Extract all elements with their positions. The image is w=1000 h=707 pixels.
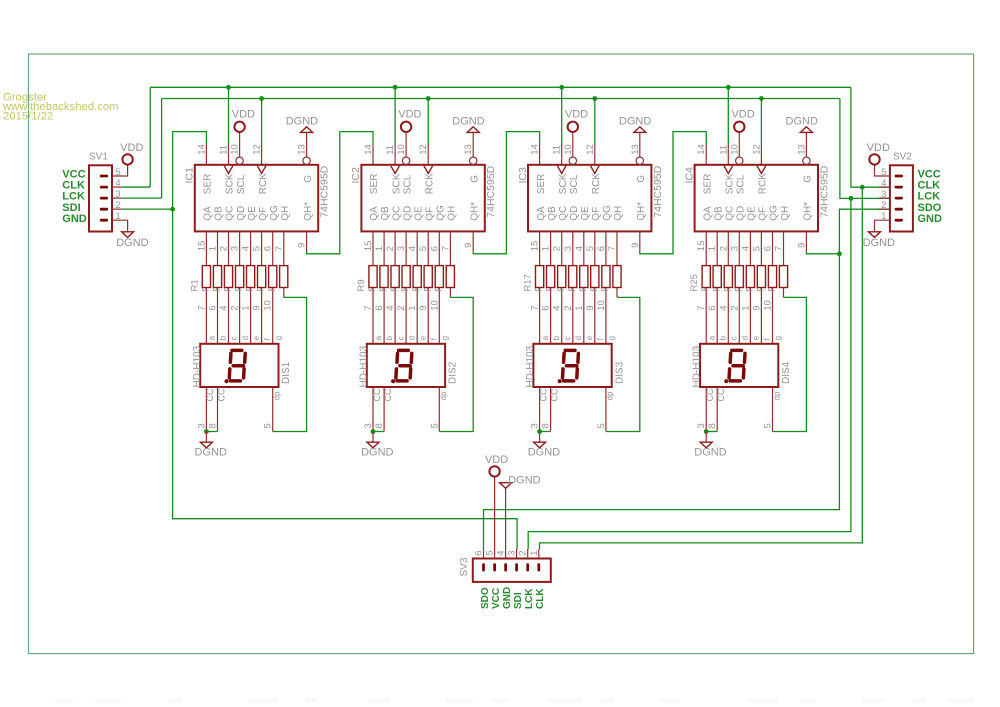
svg-text:QE: QE (413, 206, 424, 221)
pin stub SER IC3 (539, 145, 541, 165)
pin bar 5 SV3 (493, 563, 496, 571)
pin stub QH* IC2 (472, 231, 474, 251)
power VDD symbol IC1 (234, 122, 244, 132)
svg-text:GND: GND (502, 587, 513, 609)
wire segment column 3 stage 1 (239, 231, 241, 343)
svg-text:SCK: SCK (225, 173, 236, 194)
svg-text:dp: dp (772, 391, 781, 400)
wire segment column 5 stage 1 (261, 231, 263, 343)
ground DGND symbol DIS3 (534, 442, 546, 448)
svg-text:b: b (719, 335, 728, 340)
body DIS2 (367, 344, 445, 387)
svg-text:g: g (274, 336, 283, 340)
pin bar 3 SV2 (895, 197, 903, 200)
pin stub RCK IC1 (261, 145, 263, 165)
body IC1 (195, 165, 318, 232)
pin VDD to SCL IC3 (572, 132, 574, 157)
pin stub 1 SV3 (538, 549, 540, 559)
svg-text:LCK: LCK (524, 588, 535, 609)
svg-text:3: 3 (729, 246, 740, 251)
svg-text:R25: R25 (689, 274, 700, 291)
svg-text:QH: QH (613, 206, 624, 221)
pin CC2 DIS1 (217, 387, 219, 432)
svg-text:7: 7 (696, 306, 707, 311)
svg-text:74HC595D: 74HC595D (652, 165, 664, 217)
seven-segment digit DIS4 (729, 350, 745, 381)
svg-text:CC: CC (716, 388, 726, 401)
svg-text:SCL: SCL (736, 174, 747, 194)
wire segment column 1 stage 2 (383, 231, 385, 343)
svg-text:DIS4: DIS4 (781, 361, 792, 384)
resistor R13 (413, 266, 421, 288)
wire CC join stage 2 (373, 431, 384, 433)
display DIS1 HD-H103 (192, 335, 292, 431)
svg-text:DGND: DGND (694, 447, 726, 459)
wire segment column 6 stage 1 (272, 231, 274, 343)
ground DGND symbol SV3 (500, 483, 512, 489)
svg-text:QD: QD (736, 206, 747, 221)
svg-text:10: 10 (563, 144, 574, 155)
pin dp display DIS4 (772, 387, 774, 432)
pin stub 2 SV2 (879, 208, 890, 210)
svg-text:QD: QD (236, 206, 247, 221)
svg-text:QF: QF (758, 207, 769, 221)
svg-text:4: 4 (740, 246, 751, 251)
wire segment column 7 (dp) stage 2 (449, 231, 451, 297)
clock chevron pin IC4 col 5 (757, 166, 766, 174)
svg-text:CC: CC (549, 388, 559, 401)
svg-text:VDD: VDD (485, 454, 508, 466)
pin stub SCK IC2 (394, 145, 396, 165)
svg-text:QG: QG (269, 205, 280, 221)
wire segment column 3 stage 2 (405, 231, 407, 343)
wire segment column 4 stage 2 (416, 231, 418, 343)
svg-text:G: G (636, 175, 647, 183)
svg-text:G: G (303, 175, 314, 183)
svg-text:9: 9 (630, 243, 641, 248)
pin stub SCK IC4 (727, 145, 729, 165)
wire segment column 2 stage 3 (561, 231, 563, 343)
svg-text:SDI: SDI (513, 592, 524, 609)
display DIS4 HD-H103 (692, 335, 792, 431)
wire LCK top rail (162, 98, 840, 100)
svg-text:7: 7 (274, 246, 285, 251)
svg-text:d: d (574, 336, 583, 340)
svg-text:4: 4 (219, 306, 230, 311)
svg-text:14: 14 (196, 144, 207, 155)
wire LCK down to SV3 (528, 198, 851, 549)
svg-text:12: 12 (418, 144, 429, 155)
wire GND SV2 to DGND (875, 220, 890, 232)
body IC3 (528, 165, 651, 232)
wire QH* IC4 to SDO (806, 251, 839, 253)
svg-text:QH: QH (780, 206, 791, 221)
svg-text:R1: R1 (189, 279, 200, 291)
svg-text:dp: dp (439, 391, 448, 400)
clock chevron pin IC1 col 5 (257, 166, 266, 174)
svg-text:4: 4 (407, 246, 418, 251)
wire RCK drop stage 2 (427, 99, 429, 145)
svg-text:a: a (208, 335, 217, 340)
svg-text:2: 2 (385, 246, 396, 251)
svg-text:13: 13 (630, 144, 641, 155)
svg-text:b: b (385, 335, 394, 340)
svg-text:SCL: SCL (569, 174, 580, 194)
svg-text:15: 15 (363, 241, 374, 252)
resistor R19 (558, 266, 566, 288)
decimal point DIS3 (558, 379, 562, 383)
resistor R8 (280, 266, 288, 288)
power VDD symbol SV2 (869, 154, 879, 164)
ground DGND symbol SV2 (869, 232, 881, 238)
pin stub QH* IC1 (306, 231, 308, 251)
pin dp display DIS1 (272, 387, 274, 432)
power VDD symbol SV1 (122, 154, 132, 164)
pin stub 3 SV2 (879, 197, 890, 199)
pin CC1 DIS2 (372, 387, 374, 432)
svg-text:a: a (374, 335, 383, 340)
clock chevron pin IC3 col 2 (557, 166, 566, 174)
resistor R18 (547, 266, 555, 288)
connector SV3 (459, 549, 551, 609)
wire VCC SV2 to VDD (875, 165, 890, 176)
svg-text:74HC595D: 74HC595D (485, 165, 497, 217)
connector SV2 (881, 151, 942, 231)
pin bar 2 SV3 (526, 563, 529, 571)
resistor R22 (591, 266, 599, 288)
svg-text:c: c (230, 336, 239, 340)
svg-text:CC: CC (705, 388, 715, 401)
svg-text:QC: QC (391, 206, 402, 221)
wire LCK riser left (161, 99, 163, 199)
svg-text:g: g (774, 336, 783, 340)
svg-text:7: 7 (774, 246, 785, 251)
svg-text:DIS2: DIS2 (448, 361, 459, 384)
svg-text:12: 12 (252, 144, 263, 155)
svg-text:f: f (596, 337, 605, 340)
wire dp net stage 2 (439, 297, 473, 431)
wire LCK to SV2 (840, 99, 890, 199)
svg-text:3: 3 (396, 246, 407, 251)
svg-text:VDD: VDD (232, 108, 255, 120)
wire segment column 7 (dp) stage 3 (616, 231, 618, 297)
svg-text:9: 9 (585, 306, 596, 311)
svg-text:4: 4 (718, 306, 729, 311)
svg-text:QG: QG (769, 205, 780, 221)
wire QH* IC2 to SER IC3 (473, 132, 539, 254)
body SV3 (473, 559, 551, 582)
svg-text:QC: QC (558, 206, 569, 221)
wire CC to ground stage 2 (372, 432, 374, 443)
ground DGND symbol IC4 (800, 127, 812, 133)
svg-text:QF: QF (258, 207, 269, 221)
svg-text:8: 8 (541, 423, 552, 428)
wire dp net stage 4 (773, 297, 807, 431)
resistor R6 (258, 266, 266, 288)
wire segment column 2 stage 1 (228, 231, 230, 343)
junction CC stage 2 (371, 429, 376, 434)
svg-text:d: d (741, 336, 750, 340)
svg-text:11: 11 (552, 145, 563, 155)
wire segment column 1 stage 3 (550, 231, 552, 343)
decimal point DIS2 (391, 379, 395, 383)
svg-text:4: 4 (241, 246, 252, 251)
svg-text:RCK: RCK (424, 173, 435, 194)
pin stub 4 SV2 (879, 186, 890, 188)
svg-text:6: 6 (374, 306, 385, 311)
svg-text:4: 4 (385, 306, 396, 311)
svg-text:7: 7 (530, 306, 541, 311)
wire SDI to SER IC1 (173, 132, 207, 210)
pin CC2 DIS4 (716, 387, 718, 432)
pin stub RCK IC2 (427, 145, 429, 165)
pin stub 4 SV1 (112, 186, 123, 188)
pin bar 6 SV3 (482, 563, 485, 571)
svg-text:2: 2 (518, 551, 529, 556)
body DIS1 (200, 344, 278, 387)
svg-text:13: 13 (297, 144, 308, 155)
svg-text:QC: QC (725, 206, 736, 221)
svg-text:SV2: SV2 (893, 151, 912, 162)
svg-text:e: e (585, 335, 594, 340)
ground DGND symbol DIS1 (200, 442, 212, 448)
svg-text:CC: CC (205, 388, 215, 401)
svg-text:QB: QB (214, 206, 225, 221)
svg-text:1: 1 (208, 246, 219, 251)
svg-text:QA: QA (369, 206, 380, 221)
svg-text:5: 5 (751, 246, 762, 251)
svg-text:DGND: DGND (195, 447, 227, 459)
pin stub SER IC1 (205, 145, 207, 165)
inversion bubble G IC1 (303, 157, 310, 164)
svg-text:CC: CC (538, 388, 548, 401)
resistor R17 (536, 266, 544, 288)
inversion bubble SCL IC1 (236, 157, 243, 164)
wire CC to ground stage 3 (539, 432, 541, 443)
svg-text:QC: QC (225, 206, 236, 221)
seven-segment digit DIS1 (229, 350, 245, 381)
pin VDD to SCL IC4 (738, 132, 740, 157)
wire CC join stage 4 (706, 431, 717, 433)
svg-text:QE: QE (747, 206, 758, 221)
svg-text:a: a (707, 335, 716, 340)
svg-text:74HC595D: 74HC595D (818, 165, 830, 217)
svg-text:10: 10 (763, 300, 774, 311)
junction CLK at SV2 (860, 185, 865, 190)
svg-text:QD: QD (569, 206, 580, 221)
resistor R10 (380, 266, 388, 288)
svg-text:SDO: SDO (480, 587, 491, 609)
svg-text:RCK: RCK (258, 173, 269, 194)
svg-text:3: 3 (696, 423, 707, 428)
svg-text:11: 11 (219, 145, 230, 155)
wire segment column 6 stage 2 (438, 231, 440, 343)
resistor R3 (224, 266, 232, 288)
svg-text:QB: QB (547, 206, 558, 221)
wire segment column 5 stage 4 (760, 231, 762, 343)
svg-text:g: g (441, 336, 450, 340)
svg-text:VDD: VDD (120, 142, 143, 154)
body DIS4 (700, 344, 778, 387)
decimal point DIS4 (724, 379, 728, 383)
svg-text:3: 3 (507, 551, 518, 556)
resistor R11 (391, 266, 399, 288)
faint bottom artifact strip (55, 698, 974, 703)
pin stub SER IC4 (705, 145, 707, 165)
junction LCK rail stage 4 (759, 96, 764, 101)
inversion bubble SCL IC3 (569, 157, 576, 164)
wire GND SV1 to DGND (112, 220, 128, 232)
pin bar 1 SV2 (895, 219, 903, 222)
svg-text:5: 5 (418, 246, 429, 251)
seven-segment digit DIS3 (563, 350, 579, 381)
wire SCK drop stage 1 (228, 87, 230, 144)
svg-text:9: 9 (796, 243, 807, 248)
pin DGND to G IC1 (306, 132, 308, 157)
body DIS3 (533, 344, 611, 387)
svg-text:dp: dp (273, 391, 282, 400)
resistor R20 (569, 266, 577, 288)
wire VCC SV1 to VDD (112, 165, 128, 176)
svg-text:10: 10 (429, 300, 440, 311)
power VDD symbol IC2 (401, 122, 411, 132)
ground DGND symbol IC2 (467, 127, 479, 133)
svg-text:10: 10 (230, 144, 241, 155)
svg-text:6: 6 (263, 246, 274, 251)
pin dp display DIS2 (438, 387, 440, 432)
pin stub QH* IC3 (639, 231, 641, 251)
pin VDD to SCL IC2 (405, 132, 407, 157)
svg-text:c: c (396, 336, 405, 340)
svg-text:3: 3 (363, 423, 374, 428)
svg-text:11: 11 (385, 145, 396, 155)
svg-text:c: c (730, 336, 739, 340)
svg-text:2015/1/22: 2015/1/22 (3, 111, 53, 123)
svg-text:2: 2 (552, 246, 563, 251)
svg-text:IC1: IC1 (184, 167, 196, 184)
svg-text:6: 6 (707, 306, 718, 311)
pin stub 2 SV1 (112, 208, 123, 210)
wire CLK riser left (149, 87, 151, 187)
svg-text:3: 3 (563, 246, 574, 251)
svg-text:2: 2 (563, 306, 574, 311)
pin VDD to SCL IC1 (239, 132, 241, 157)
svg-text:15: 15 (196, 241, 207, 252)
svg-text:QA: QA (536, 206, 547, 221)
svg-text:DGND: DGND (619, 116, 651, 128)
svg-text:9: 9 (751, 306, 762, 311)
svg-text:6: 6 (429, 246, 440, 251)
svg-text:HD-H103: HD-H103 (358, 345, 369, 387)
svg-text:74HC595D: 74HC595D (319, 165, 331, 217)
svg-text:5: 5 (596, 423, 607, 428)
resistor R21 (580, 266, 588, 288)
svg-text:CC: CC (383, 388, 393, 401)
svg-text:GND: GND (918, 213, 943, 225)
svg-text:QD: QD (402, 206, 413, 221)
svg-text:f: f (763, 337, 772, 340)
svg-text:RCK: RCK (758, 173, 769, 194)
svg-text:DGND: DGND (452, 116, 484, 128)
resistor R31 (768, 266, 776, 288)
svg-text:DGND: DGND (508, 474, 540, 486)
svg-text:4: 4 (552, 306, 563, 311)
body IC4 (695, 165, 818, 232)
svg-text:f: f (263, 337, 272, 340)
wire segment column 3 stage 3 (572, 231, 574, 343)
resistor R4 (236, 266, 244, 288)
svg-text:14: 14 (696, 144, 707, 155)
wire QH* IC3 to SER IC4 (640, 132, 706, 254)
svg-text:VDD: VDD (398, 108, 421, 120)
pin bar 5 SV2 (895, 175, 903, 178)
wire RCK drop stage 4 (760, 99, 762, 145)
display DIS2 HD-H103 (358, 335, 458, 431)
body SV1 (89, 165, 112, 231)
svg-text:5: 5 (252, 246, 263, 251)
svg-text:6: 6 (763, 246, 774, 251)
wire CC join stage 3 (540, 431, 551, 433)
svg-text:f: f (429, 337, 438, 340)
wire CLK top rail (150, 86, 851, 88)
wire SCK drop stage 3 (561, 87, 563, 144)
svg-text:b: b (219, 335, 228, 340)
wire LCK SV1 (123, 197, 162, 199)
svg-text:QE: QE (580, 206, 591, 221)
svg-text:1: 1 (707, 246, 718, 251)
wire CC join stage 1 (206, 431, 217, 433)
junction LCK at SV2 (849, 196, 854, 201)
pin bar 1 SV1 (100, 219, 108, 222)
pin bar 4 SV1 (100, 186, 108, 189)
svg-text:9: 9 (297, 243, 308, 248)
svg-text:14: 14 (363, 144, 374, 155)
svg-text:5: 5 (585, 246, 596, 251)
svg-text:QB: QB (380, 206, 391, 221)
svg-text:R17: R17 (523, 274, 534, 291)
ground DGND symbol DIS4 (700, 442, 712, 448)
resistor R5 (247, 266, 255, 288)
svg-text:1: 1 (574, 306, 585, 311)
inversion bubble G IC3 (636, 157, 643, 164)
pin bar 4 SV3 (504, 563, 507, 571)
svg-text:5: 5 (263, 423, 274, 428)
svg-text:2: 2 (396, 306, 407, 311)
pin stub QH* IC4 (805, 231, 807, 251)
svg-text:QH*: QH* (469, 202, 480, 221)
svg-text:DGND: DGND (116, 237, 148, 249)
svg-text:3: 3 (196, 423, 207, 428)
power VDD symbol IC4 (734, 122, 744, 132)
svg-text:SV1: SV1 (89, 151, 108, 162)
wire segment column 4 stage 1 (250, 231, 252, 343)
wire segment column 3 stage 4 (738, 231, 740, 343)
svg-text:1: 1 (241, 306, 252, 311)
wire RCK drop stage 1 (261, 99, 263, 145)
decimal point DIS1 (224, 379, 228, 383)
svg-text:e: e (252, 335, 261, 340)
svg-text:8: 8 (707, 423, 718, 428)
svg-text:b: b (552, 335, 561, 340)
svg-text:d: d (241, 336, 250, 340)
pin stub SCK IC1 (228, 145, 230, 165)
svg-text:QH*: QH* (803, 202, 814, 221)
svg-text:SER: SER (203, 174, 214, 195)
resistor R9 (369, 266, 377, 288)
svg-text:DGND: DGND (361, 447, 393, 459)
wire segment column 2 stage 4 (727, 231, 729, 343)
svg-text:1: 1 (407, 306, 418, 311)
